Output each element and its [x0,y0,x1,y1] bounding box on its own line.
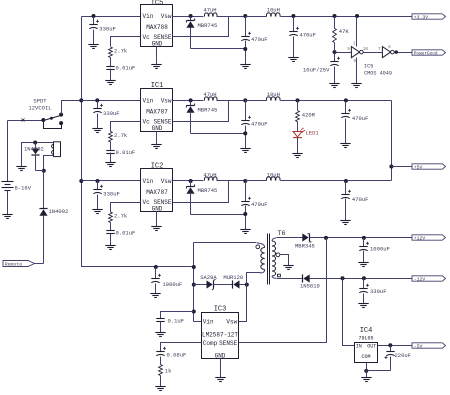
ground (IC1 GND) [151,144,161,146]
junction mark X on wire [22,119,25,122]
wire Vin row IC5 [82,16,141,18]
svg-text:0.01uF: 0.01uF [116,230,136,237]
resistor 2.7k (IC1) [109,131,113,142]
wire main input bus [140,16,142,18]
wire IC1 output rail [281,100,392,102]
op-amp IC3 LM2587-12T [202,313,239,359]
junction 220uF [388,343,392,347]
wire 2.7k to 0.01uF IC2 [110,223,112,231]
capacitor 470uF (IC2 first filter) [245,181,247,202]
diode MBR745 (IC2 catch) [190,181,192,187]
wire SENSE feedback IC1 [173,101,229,122]
ground (10uF/25V) [329,83,339,85]
svg-text:Vsw: Vsw [161,178,172,185]
svg-text:GND: GND [152,125,163,132]
svg-text:Vin: Vin [143,13,154,20]
resistor 2.7k (IC5) [109,47,113,58]
wire Vin row IC1 [82,100,141,102]
ground (470uF IC2) [240,229,250,231]
wire Vc IC5 [111,37,141,47]
wire Vsw IC1 [173,100,204,102]
inductor 47uH (IC1) [205,97,218,101]
capacitor 330uF (-12V) [363,279,365,289]
wire GND pin IC1 [156,132,158,145]
capacitor 330uF (IC1 input) [97,101,99,109]
wire ground rail IC2 [191,214,246,216]
svg-text:330uF: 330uF [99,26,116,33]
junction snubber to primary [245,283,249,287]
diode LED1 red [293,132,302,138]
svg-text:MAX787: MAX787 [146,189,168,196]
svg-text:330uF: 330uF [370,288,387,295]
svg-text:Vin: Vin [143,97,154,104]
svg-text:SENSE: SENSE [219,340,237,347]
svg-text:470uF: 470uF [352,115,369,122]
node +5V [412,164,446,169]
wire gate A to gate B [364,52,383,54]
resistor 420R [297,101,299,111]
svg-text:MUR120: MUR120 [223,274,243,281]
wire primary bottom to Vsw [239,273,261,322]
ground (330uF IC2) [92,209,102,211]
wire IC3 Vin [194,321,202,323]
diode MBR745 (IC5 catch) [190,17,192,21]
svg-text:220uF: 220uF [395,352,412,359]
svg-text:1000uF: 1000uF [370,245,390,252]
wire VDD to gate pin 1 [356,17,358,47]
svg-text:10uF/25V: 10uF/25V [303,67,330,74]
ground (470uF IC1) [240,148,250,150]
svg-text:GND: GND [152,206,163,213]
ground (4049 VSS) [351,83,361,85]
ground (0.01uF IC2) [105,245,115,247]
ground (470uF IC5) [240,64,250,66]
wire coil top to ground [22,143,54,167]
capacitor 470uF (5V output A) [345,101,347,114]
node +12V [412,235,446,240]
ground (0.01uF IC5) [105,80,115,82]
ground (330uF IC5) [88,44,98,46]
svg-text:2.7k: 2.7k [114,213,128,220]
svg-text:Vc: Vc [143,34,151,41]
svg-text:Remote: Remote [5,261,22,267]
svg-text:47uH: 47uH [203,7,216,14]
svg-text:47uH: 47uH [203,172,216,179]
wire secondary bottom [277,278,303,280]
svg-text:470uF: 470uF [299,32,316,39]
inductor 10uH (IC1) [246,100,267,102]
svg-text:10uH: 10uH [267,172,280,179]
wire between snubber diodes [214,284,233,286]
svg-text:GND: GND [152,41,163,48]
transformer secondary winding [272,238,276,241]
ground (1000uF 12V) [358,262,368,264]
ground (470uF 5V-B) [340,220,350,222]
junction node A IC1 [189,98,193,102]
ground (330uF IC1) [92,128,102,130]
wire IC2 output rail [281,180,392,182]
wire primary top [194,242,257,244]
ground (0.01uF IC1) [105,162,115,164]
capacitor 470uF (IC5 first filter) [245,17,247,37]
ground (IC3) [215,377,225,379]
op-amp IC2 regulator MAX787 [141,169,173,212]
capacitor 220uF [390,346,392,352]
wire to inverter [335,52,352,54]
wire coil bottom [44,156,54,171]
wire IC4 OUT [378,345,413,347]
wire to remote diode [43,171,45,209]
svg-text:Vsw: Vsw [226,319,237,326]
capacitor 470uF (IC1 first filter) [245,101,247,121]
svg-text:1: 1 [353,41,356,46]
svg-text:0.68uF: 0.68uF [167,351,187,358]
ground (470uF 5V-A) [340,143,350,145]
ground (IC2 GND) [151,226,161,228]
wire Vsw IC2 [173,180,204,182]
node -12V [412,276,446,281]
resistor 2.7k (IC2) [109,212,113,223]
svg-text:0.1uF: 0.1uF [168,318,185,325]
svg-text:-12V: -12V [414,276,426,282]
svg-text:1000uF: 1000uF [163,281,183,288]
svg-text:47uH: 47uH [203,91,216,98]
svg-text:+5V: +5V [414,164,423,170]
svg-text:2.7k: 2.7k [114,48,128,55]
ground (LED1) [292,153,302,155]
wire battery to relay pole [8,120,44,122]
capacitor 0.01uF (IC5) [106,66,114,68]
wire IC1 to +5V junction [391,101,393,181]
svg-text:6: 6 [388,45,391,50]
svg-text:10uH: 10uH [267,91,280,98]
capacitor 0.01uF (IC1) [106,150,114,152]
wire flyback feed vertical [193,243,195,322]
svg-text:12VCOIL: 12VCOIL [28,104,51,111]
diode 1N4002 flyback across coil [35,143,37,149]
junction LED branch [296,98,300,102]
capacitor 470uF (5V output B) [345,181,347,195]
node Remote [3,261,35,267]
svg-text:GND: GND [215,353,226,360]
svg-text:LED1: LED1 [306,130,320,137]
op-amp IC1 regulator MAX787 [141,89,173,132]
diode MBR745 (IC1 catch) [190,101,192,106]
svg-text:Vsw: Vsw [161,13,172,20]
junction node B IC2 [243,179,247,183]
wire 2.7k to 0.01uF IC5 [110,58,112,67]
diode MBR345 [302,233,308,241]
capacitor 470uF (3.3V output) [293,17,295,32]
wire 220uF bottom [367,370,391,372]
wire snubber row [194,284,208,286]
svg-text:MBR745: MBR745 [198,22,218,29]
ground (1000uF input) [150,293,160,295]
junction node B IC5 [243,14,247,18]
ground (330uF -12V) [358,303,368,305]
capacitor 0.1uF [161,312,194,319]
svg-text:470uF: 470uF [251,120,268,127]
svg-text:8-16V: 8-16V [15,185,32,192]
battery 8-16V input [7,121,9,182]
svg-text:10: 10 [363,47,369,52]
svg-text:470uF: 470uF [251,36,268,43]
svg-text:MBR745: MBR745 [198,106,218,113]
svg-text:MBR745: MBR745 [198,187,218,194]
svg-text:OUT: OUT [367,343,376,349]
svg-text:Vin: Vin [203,319,214,326]
svg-text:Vsw: Vsw [161,97,172,104]
wire +12V rail [310,237,413,239]
junction bus-IC5 [92,14,96,18]
svg-text:IC5: IC5 [151,0,164,8]
capacitor 1000uF (+12V) [363,238,365,247]
junction 470uF 5V-A [344,98,348,102]
junction bus-IC1 [95,98,99,102]
svg-text:420R: 420R [302,112,316,119]
svg-text:COM: COM [361,354,370,360]
svg-text:1N5819: 1N5819 [300,283,320,290]
wire Vsw IC5 [173,16,204,18]
diode MUR120 [233,280,239,288]
resistor 1k [159,365,163,376]
wire SENSE feedback IC2 [173,181,229,203]
junction coil/diode [42,169,46,173]
op-amp IC5 regulator MAX788 [141,5,173,47]
node PowerGood [412,50,446,55]
wire relay NO contact to Vin rail [62,101,82,115]
svg-text:IC2: IC2 [151,163,164,171]
capacitor 10uF/25V [334,53,336,62]
svg-text:+3.3V: +3.3V [414,14,429,20]
ground (IC5 GND) [151,64,161,66]
junction bus-IC2 [96,179,100,183]
junction sense tap [324,236,328,240]
svg-text:IN: IN [356,343,362,349]
inductor 47uH (IC2) [205,177,218,181]
svg-text:MAX788: MAX788 [146,24,168,31]
svg-text:9: 9 [347,47,350,52]
wire IC5 output rail [281,16,413,18]
capacitor 330uF (IC5 input) [93,17,95,25]
node polarity dot secondary tap [276,253,280,257]
capacitor 0.01uF (IC2) [106,230,114,232]
svg-text:-5V: -5V [414,343,423,349]
svg-text:MAX787: MAX787 [146,108,168,115]
junction 330uF -12V [362,276,366,280]
svg-text:MBR345: MBR345 [295,242,315,249]
svg-text:47K: 47K [339,28,350,35]
capacitor 1000uF (flyback input) [155,267,157,279]
node polarity square secondary bottom [277,274,280,277]
diode 1N4002 remote line [39,209,47,215]
svg-text:LM2587-12T: LM2587-12T [202,332,238,339]
svg-text:+12V: +12V [414,235,426,241]
inductor 10uH (IC2) [246,180,267,182]
junction inverter input node [333,50,337,54]
ground (0.1uF) [155,332,165,334]
junction 47K tap [333,14,337,18]
wire GND pin IC2 [156,212,158,227]
junction node A IC2 [189,179,193,183]
wire COM to ground [366,363,368,371]
svg-text:IC5: IC5 [364,64,373,70]
svg-text:Vc: Vc [143,118,151,125]
svg-text:T6: T6 [278,230,286,237]
inductor 47uH (IC5) [205,13,218,17]
svg-text:7: 7 [378,47,381,52]
wire gate B output to PowerGood [395,52,413,54]
op-amp IC4 79L05 [355,343,378,363]
svg-text:330uF: 330uF [103,110,120,117]
junction node C IC5 [291,14,295,18]
node polarity dot primary [256,245,260,249]
wire center tap to ground [280,255,289,266]
wire to Remote flag [35,263,44,265]
relay coil [54,142,61,157]
svg-text:0.01uF: 0.01uF [116,65,136,72]
capacitor 0.68uF [156,351,164,353]
svg-text:470uF: 470uF [251,201,268,208]
svg-text:79L05: 79L05 [358,336,373,342]
wire SENSE feedback IC5 [173,17,229,37]
junction node B IC1 [243,98,247,102]
svg-text:IC4: IC4 [360,327,373,335]
ground (relay coil) [16,166,26,168]
svg-text:Vin: Vin [143,178,154,185]
svg-text:IC3: IC3 [214,306,227,314]
junction 1000uF 12V [362,236,366,240]
ground (center tap) [283,265,293,267]
svg-text:PowerGood: PowerGood [414,51,438,56]
junction 470uF 5V-B [344,179,348,183]
wire ground rail IC1 [191,133,246,135]
junction VDD tap [355,14,359,18]
wire secondary top [277,237,303,239]
junction -12V to IC4 [341,276,345,280]
diode SA28A TVS [207,280,213,288]
svg-text:Comp: Comp [203,340,218,347]
junction node A IC5 [189,14,193,18]
svg-text:2.7k: 2.7k [114,132,128,139]
node -5V [412,343,446,348]
op-amp U inverter gate B (CMOS 4049) [382,47,390,58]
wire to +5V flag [392,166,413,168]
capacitor 330uF (IC2 input) [97,181,99,190]
svg-text:1N4002: 1N4002 [24,145,44,152]
wire ground rail IC5 [191,48,246,50]
inductor 10uH (IC5) [246,16,267,18]
op-amp U inverter gate A (CMOS 4049) [351,47,359,58]
svg-text:SA28A: SA28A [200,274,217,281]
wire Vin row IC2 [82,180,141,182]
svg-text:1k: 1k [165,368,172,375]
transformer core [267,234,269,285]
wire IC3 Comp [161,343,202,352]
resistor 47K [334,17,336,29]
svg-text:330uF: 330uF [103,191,120,198]
wire VSS to ground [356,58,358,84]
wire 12V sense to IC3 [239,238,327,343]
wire Vc IC2 [111,203,141,213]
ground (battery) [2,214,12,216]
wire -12V to IC4 IN [343,279,355,346]
svg-text:1N4002: 1N4002 [49,208,69,215]
wire IC3 GND [220,359,222,378]
svg-text:IC1: IC1 [151,82,164,90]
wire Vc IC1 [111,122,141,132]
ground (IC4 COM) [361,377,371,379]
svg-text:Vc: Vc [143,199,151,206]
ground (1k) [155,386,165,388]
svg-text:10uH: 10uH [267,7,280,14]
wire 2.7k to 0.01uF IC1 [110,142,112,151]
wire GND pin IC5 [156,47,158,65]
ground (470uF 3.3V) [288,57,298,59]
svg-text:0.01uF: 0.01uF [116,149,136,156]
svg-text:470uF: 470uF [352,196,369,203]
svg-text:SPDT: SPDT [33,97,47,104]
svg-text:CMOS 4049: CMOS 4049 [364,70,392,76]
node +3.3V [412,14,446,19]
diode 1N5819 [303,274,309,282]
